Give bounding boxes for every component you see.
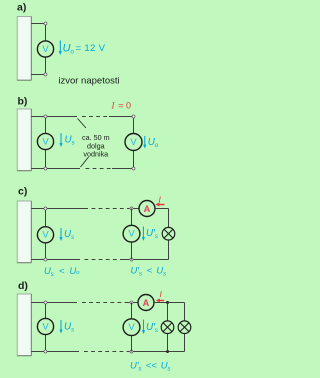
svg-text:V: V [42,136,49,147]
svg-text:d): d) [18,280,28,292]
svg-text:= 12 V: = 12 V [76,43,106,54]
svg-text:A: A [143,298,150,308]
svg-text:V: V [128,229,135,240]
svg-text:Us < Uo: Us < Uo [44,265,80,278]
svg-text:V: V [42,230,49,241]
svg-text:V: V [128,322,135,333]
svg-text:U′s < Us: U′s < Us [131,265,167,278]
svg-text:I = 0: I = 0 [111,101,131,111]
svg-text:a): a) [17,2,26,14]
svg-text:c): c) [18,186,27,198]
svg-text:U′s << Us: U′s << Us [130,360,170,373]
svg-text:b): b) [18,96,28,108]
svg-text:A: A [144,204,151,214]
svg-text:vodnika: vodnika [83,150,108,159]
svg-text:V: V [130,137,137,148]
svg-text:izvor napetosti: izvor napetosti [58,76,119,87]
svg-text:V: V [42,321,49,332]
svg-text:V: V [42,44,49,55]
